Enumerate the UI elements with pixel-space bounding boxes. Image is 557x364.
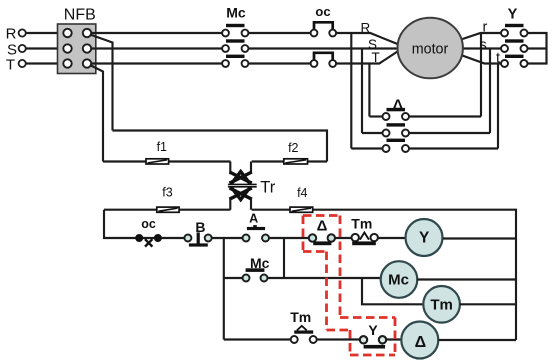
svg-text:oc: oc	[141, 217, 156, 231]
wire Tm contact to Y coil	[378, 237, 407, 239]
svg-text:T: T	[372, 50, 380, 65]
wire f4 line to right rail	[252, 210, 516, 340]
wire t motor to Y	[460, 55, 502, 64]
wire Tm coil branch	[362, 278, 424, 304]
wire Mc coil to rail	[417, 278, 516, 280]
wire T Mc to oc	[248, 62, 310, 64]
svg-text:Tm: Tm	[351, 215, 372, 231]
wire bottom row left	[224, 338, 291, 340]
svg-text:motor: motor	[412, 41, 449, 57]
node s motor lead label	[480, 38, 487, 54]
contact oc trip	[135, 217, 162, 247]
wire S Mc to motor	[248, 47, 398, 49]
coil Tm	[423, 286, 460, 323]
wire r tap to delta row1	[480, 33, 482, 117]
fuse f3	[157, 186, 179, 213]
interlock highlight box around Delta NC contact (bottom edge)	[303, 250, 327, 253]
wire R oc to motor	[336, 33, 397, 44]
contact Mc holding	[243, 255, 270, 282]
wire control tap from R phase	[90, 35, 113, 131]
wire Y star bridge	[527, 33, 546, 64]
wire delta row1 left	[369, 115, 382, 117]
svg-text:f2: f2	[288, 141, 298, 155]
svg-text:oc: oc	[315, 4, 330, 19]
svg-text:Tr: Tr	[260, 178, 275, 196]
wire T supply lead	[26, 62, 64, 64]
overload heater oc label	[315, 4, 330, 19]
svg-text:Tm: Tm	[290, 309, 311, 325]
svg-text:Y: Y	[368, 322, 378, 338]
wire f2 line	[252, 160, 327, 162]
wire primary feed horizontal	[113, 131, 328, 162]
wire T NFB to Mc	[91, 62, 222, 64]
svg-text:f3: f3	[162, 186, 172, 200]
svg-text:Y: Y	[419, 229, 430, 246]
wire delta row3 right	[409, 147, 498, 149]
wire Mc row left	[224, 277, 243, 279]
fuse f1	[146, 140, 169, 164]
node T terminal	[6, 57, 26, 74]
svg-text:T: T	[6, 57, 15, 74]
wire R tap to delta row3	[350, 33, 352, 149]
contact Tm NO timed	[290, 309, 317, 343]
contactor Y main contacts	[501, 7, 528, 68]
contact Delta NC interlock	[309, 217, 335, 245]
wire delta row1 right	[409, 115, 481, 117]
svg-text:NFB: NFB	[64, 7, 96, 24]
interlock highlight box around Delta NC contact (left edge)	[302, 216, 305, 252]
wire R Mc to oc	[248, 32, 310, 34]
wire Mc row to coil	[267, 277, 381, 279]
interlock highlight box around Y NC contact (bottom edge)	[350, 354, 395, 357]
contact Tm NC timed	[351, 215, 378, 245]
motor M	[398, 18, 463, 79]
node R motor lead label	[361, 20, 371, 35]
wire B to A with branch node	[212, 237, 243, 239]
svg-text:Y: Y	[508, 7, 518, 23]
interlock highlight box around Y NC contact (left edge)	[349, 330, 352, 355]
svg-text:R: R	[6, 26, 17, 43]
wire oc to B	[162, 237, 185, 239]
node r motor lead label	[483, 20, 488, 36]
node S motor lead label	[368, 37, 377, 52]
wire t tap to delta row3	[497, 64, 499, 149]
svg-text:f4: f4	[297, 186, 307, 200]
wire branch after A down to Mc row	[283, 238, 285, 278]
interlock highlight box around Delta NC contact (top edge)	[303, 214, 340, 217]
wire delta contact to Tm contact	[335, 237, 352, 239]
svg-text:R: R	[361, 20, 371, 35]
node t motor lead label	[496, 51, 500, 67]
wire A to delta contact	[269, 237, 309, 239]
svg-text:t: t	[496, 51, 500, 67]
svg-text:Δ: Δ	[415, 334, 427, 351]
wire left control rail	[104, 210, 136, 238]
wire S NFB to Mc	[91, 47, 222, 49]
fuse f4	[290, 186, 313, 213]
wire S tap to delta row2	[361, 49, 363, 134]
pushbutton B stop	[184, 219, 211, 247]
wire r motor to Y	[460, 33, 502, 40]
wire Y contact to Delta coil	[386, 338, 402, 340]
node R terminal	[6, 26, 26, 43]
wire R NFB to Mc	[91, 32, 222, 34]
contactor Mc main contacts	[222, 5, 248, 67]
interlock highlight corridor left wall	[325, 252, 328, 331]
coil Mc	[381, 261, 418, 298]
overload heater oc R-phase element	[311, 22, 337, 36]
node S terminal	[7, 42, 26, 59]
wire T oc to motor	[336, 52, 397, 64]
pushbutton A start	[243, 212, 270, 242]
svg-text:s: s	[480, 38, 487, 54]
wire Delta coil to rail	[439, 339, 516, 341]
wire R supply lead	[26, 32, 64, 34]
svg-text:A: A	[249, 212, 258, 226]
svg-text:Mc: Mc	[226, 5, 246, 21]
wire Tm contact to Y contact	[317, 338, 360, 340]
svg-text:Tm: Tm	[430, 297, 453, 314]
wire Y coil to rail	[443, 237, 516, 239]
transformer Tr	[228, 162, 276, 210]
wire left branch down	[223, 238, 225, 340]
interlock highlight corridor bottom jog	[327, 329, 351, 332]
svg-text:f1: f1	[157, 140, 167, 154]
wire s motor to Y	[455, 47, 501, 49]
wire f3 line	[104, 209, 231, 211]
wire control tap from T phase	[90, 65, 103, 162]
contact Y NC interlock	[360, 322, 386, 349]
fuse f2	[284, 141, 308, 164]
wire T tap to delta row1	[368, 64, 370, 117]
overload heater oc T-phase element	[311, 53, 337, 67]
wire s tap to delta row2	[489, 49, 491, 134]
coil Delta	[401, 322, 438, 359]
interlock highlight box around Y NC contact (right edge)	[394, 318, 397, 356]
svg-text:r: r	[483, 20, 488, 36]
wire delta row2 left	[362, 132, 382, 134]
svg-text:Δ: Δ	[317, 217, 328, 234]
wire S supply lead	[26, 47, 64, 49]
node T motor lead label	[372, 50, 380, 65]
contactor Delta main contacts	[383, 97, 410, 152]
interlock highlight box around Y NC contact (top edge)	[340, 316, 395, 319]
wire f1 line	[103, 160, 231, 162]
interlock highlight corridor right wall	[339, 216, 342, 318]
breaker NFB	[58, 7, 96, 74]
wire delta row2 right	[409, 132, 490, 134]
coil Y	[406, 219, 443, 256]
wire delta row3 left	[351, 147, 382, 149]
svg-text:Mc: Mc	[388, 272, 409, 289]
wire Tm coil to rail	[460, 303, 516, 305]
